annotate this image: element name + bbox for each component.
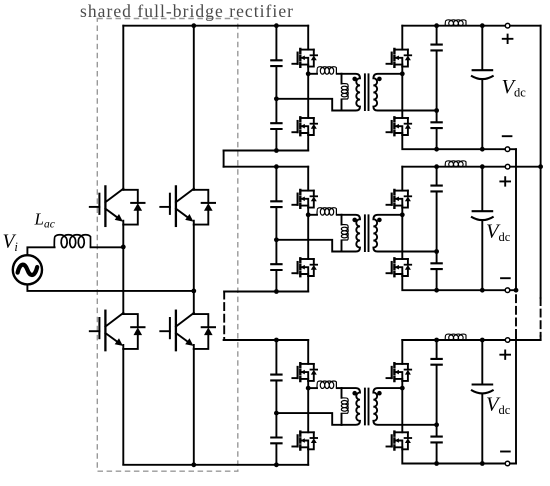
wire module 1 secondary cap leg <box>436 26 438 150</box>
junction module 2 sec cap leg top <box>434 164 439 169</box>
junction module 2 output cap bottom <box>480 288 485 293</box>
wire module 3 Q-low source to bottom rail <box>307 449 309 465</box>
plus sign (module 2) <box>499 176 511 186</box>
junction + bus / module 2 + rail <box>538 164 543 169</box>
wire output + bus (to module 3 + rail) <box>540 336 542 340</box>
junction module 1 top rail / input cap leg <box>274 23 279 28</box>
junction module 3 bottom rail / input cap leg <box>274 462 279 467</box>
junction module 1 sec cap midpoint / transformer return <box>434 108 439 113</box>
transformer T2 core <box>365 215 369 251</box>
capacitor module 3 secondary C-top <box>430 359 442 365</box>
MOSFET Q1H (primary high side) <box>292 49 317 67</box>
wire module 1 output cap leg <box>481 26 483 150</box>
junction module 1 output cap top <box>480 23 485 28</box>
transformer T1 polarity dot (primary) <box>352 77 357 82</box>
wire module 1 output + rail <box>402 25 540 27</box>
wire module 3 secondary midpoint leg <box>401 381 403 432</box>
junction module 2 sec cap leg bottom <box>434 288 439 293</box>
inductor Lr (resonant, module 1) <box>317 67 336 75</box>
junction module 1 input divider midpoint <box>274 96 279 101</box>
wire AC source top lead <box>27 247 54 255</box>
junction module 2 sec cap midpoint / transformer return <box>434 249 439 254</box>
IGBT T3 (bridge left low) <box>90 311 145 351</box>
inductor Lr (resonant, module 3) <box>317 381 336 389</box>
junction module 3 sec cap leg top <box>434 338 439 343</box>
junction module 2 half-bridge midpoint <box>306 212 311 217</box>
wire output + bus (upper, solid) <box>540 26 542 298</box>
junction module 3 half-bridge midpoint <box>306 386 311 391</box>
junction module 2 output cap top <box>480 164 485 169</box>
junction module 1 top rail / bridge right leg <box>191 23 196 28</box>
MOSFET S2L (secondary low side) <box>387 258 412 276</box>
junction module 3 secondary midpoint (transformer tap) <box>400 386 405 391</box>
junction module 1 secondary midpoint (transformer tap) <box>400 71 405 76</box>
wire module 3 half-bridge midpoint leg <box>307 381 309 432</box>
wire module 3 S-low source to output rail <box>402 449 436 463</box>
capacitor module 2 secondary C-bottom <box>430 263 442 269</box>
wire module 1 Q-low source to bottom rail <box>307 135 309 151</box>
wire module 3 S-high drain <box>401 340 403 364</box>
inductor Lr (resonant, module 2) <box>317 208 336 216</box>
inductor T2 Lm (transformer magnetizing) <box>341 225 348 241</box>
wire module 2 S-high drain <box>401 167 403 191</box>
minus sign (module 2) <box>500 277 511 279</box>
wire output - bus (dashed continuation) (dashed continuation) <box>515 295 517 338</box>
wire module 2 secondary cap leg <box>436 167 438 291</box>
minus sign (module 1) <box>502 135 513 137</box>
junction module 2 input divider midpoint <box>274 237 279 242</box>
junction module 1 half-bridge midpoint <box>306 71 311 76</box>
dashed boundary box of shared full-bridge rectifier <box>97 19 238 472</box>
capacitor module 1 secondary C-top <box>430 45 442 51</box>
MOSFET S2H (secondary high side) <box>387 190 412 208</box>
wire module 2 output - rail <box>437 289 516 291</box>
MOSFET S1L (secondary low side) <box>387 117 412 135</box>
wire module 2 bottom rail <box>224 291 308 293</box>
junction - bus / module 2 - rail <box>514 288 519 293</box>
MOSFET Q2H (primary high side) <box>292 190 317 208</box>
wire module 2 primary return wire <box>276 240 341 252</box>
junction module 3 output cap bottom <box>480 461 485 466</box>
wire module 2 half-bridge midpoint leg <box>307 208 309 259</box>
capacitor module 2 input divider C-bottom <box>270 264 282 270</box>
wire module 3 output - rail <box>437 463 516 465</box>
wire module 2 midpoint to resonant inductor <box>308 214 317 216</box>
transformer T1 polarity dot (secondary) <box>377 77 382 82</box>
wire module 1 half-bridge midpoint leg <box>307 67 309 118</box>
wire bridge right leg lower <box>193 349 195 465</box>
wire module 3 secondary cap leg <box>436 340 438 464</box>
wire module 1 bottom rail <box>224 150 309 152</box>
wire module 2 Q-low source to bottom rail <box>307 276 309 292</box>
junction module 1 bottom rail / input cap leg <box>274 148 279 153</box>
wire module 2 resonant inductor to transformer <box>337 214 342 216</box>
inductor T3 Lm (transformer magnetizing) <box>341 398 348 414</box>
junction module 3 sec cap leg bottom <box>434 461 439 466</box>
wire module 1 S-high drain <box>401 26 403 50</box>
inductor Lf (output filter, module 2) <box>445 161 466 167</box>
wire module 2 Q-high drain <box>307 167 309 191</box>
IGBT T1 (bridge left high) <box>90 186 145 226</box>
junction module 3 top rail / input cap leg <box>274 338 279 343</box>
transformer T3 primary winding <box>341 388 343 425</box>
MOSFET Q3L (primary low side) <box>292 432 317 450</box>
inductor Lac (input) <box>54 235 90 248</box>
wire output + bus (dashed continuation) (dashed continuation) <box>540 298 542 336</box>
wire module 3 resonant inductor to transformer <box>337 387 342 389</box>
wire output - bus (lower, solid) <box>515 338 517 463</box>
terminal module 3 - output <box>505 461 510 466</box>
wire module 1 primary return wire <box>276 99 341 111</box>
wire module 3 output + rail <box>402 339 540 341</box>
wire module 2 top rail <box>224 166 309 168</box>
IGBT T2 (bridge right high) <box>160 186 215 226</box>
capacitor module 1 secondary C-bottom <box>430 122 442 128</box>
transformer T1 primary winding <box>341 74 343 111</box>
wire module 3 input capacitor leg <box>275 340 277 465</box>
svg-text:shared full-bridge rectifier: shared full-bridge rectifier <box>80 1 294 21</box>
wire module 2 input capacitor leg <box>275 167 277 292</box>
MOSFET Q3H (primary high side) <box>292 363 317 381</box>
wire module 1 output - rail <box>437 148 516 150</box>
MOSFET S3H (secondary high side) <box>387 363 412 381</box>
transformer T1 secondary winding <box>373 74 436 111</box>
wire bridge left leg middle <box>122 225 124 313</box>
MOSFET Q2L (primary low side) <box>292 258 317 276</box>
plus sign (module 1) <box>502 34 514 44</box>
junction module 3 output cap top <box>480 338 485 343</box>
wire module 2 secondary midpoint leg <box>401 208 403 259</box>
junction module 3 bottom rail / bridge right leg <box>191 462 196 467</box>
AC source Vi <box>13 255 42 284</box>
junction module 2 secondary midpoint (transformer tap) <box>400 212 405 217</box>
wire module 3 midpoint to resonant inductor <box>308 387 317 389</box>
wire series link module1-module2 <box>223 151 225 167</box>
wire bridge right leg middle <box>193 225 195 313</box>
wire module 1 top rail (bridge DC+ bus) <box>123 25 308 27</box>
junction module 2 bottom rail / input cap leg <box>274 289 279 294</box>
wire module 2 S-low source to output rail <box>402 276 436 290</box>
terminal module 1 + output <box>505 23 510 28</box>
wire bridge right leg upper <box>193 26 195 189</box>
wire module 1 S-low source to output rail <box>402 135 436 149</box>
junction module 1 output cap bottom <box>480 147 485 152</box>
transformer T2 primary winding <box>341 215 343 252</box>
inductor Lf (output filter, module 1) <box>445 20 466 26</box>
terminal module 1 - output <box>505 147 510 152</box>
wire bridge left leg lower <box>122 349 124 465</box>
wire module 3 top rail <box>224 339 309 341</box>
terminal module 2 - output <box>505 288 510 293</box>
capacitor module 3 input divider C-top <box>270 375 282 381</box>
wire AC source bottom lead to bridge right midpoint <box>27 284 193 291</box>
junction module 3 sec cap midpoint / transformer return <box>434 422 439 427</box>
wire module 3 Q-high drain <box>307 340 309 364</box>
wire series link module2-module3 (dashed continuation) <box>223 292 225 339</box>
transformer T3 secondary winding <box>373 388 436 425</box>
transformer T3 core <box>365 389 369 425</box>
inductor Lf (output filter, module 3) <box>445 334 466 340</box>
transformer T2 polarity dot (secondary) <box>377 218 382 223</box>
junction module 3 input divider midpoint <box>274 411 279 416</box>
junction bridge left midpoint (AC in) <box>121 245 126 250</box>
wire Lac to bridge left midpoint <box>91 246 124 248</box>
junction module 1 sec cap leg top <box>434 23 439 28</box>
MOSFET S1H (secondary high side) <box>387 49 412 67</box>
capacitor module 1 input divider C-top <box>270 60 282 66</box>
capacitor Co (module 3, polarized) <box>472 383 494 385</box>
minus sign (module 3) <box>500 451 511 453</box>
capacitor Co (module 2, polarized) <box>472 210 494 212</box>
wire module 1 input capacitor leg <box>275 26 277 151</box>
IGBT T4 (bridge right low) <box>160 311 215 351</box>
capacitor Co (module 1, polarized) <box>472 69 494 71</box>
junction bridge right midpoint (AC return) <box>191 289 196 294</box>
wire module 1 resonant inductor to transformer <box>337 73 342 75</box>
wire module 1 midpoint to resonant inductor <box>308 73 317 75</box>
wire module 2 output + rail <box>402 166 540 168</box>
capacitor module 2 secondary C-top <box>430 186 442 192</box>
wire module 3 primary return wire <box>276 413 341 425</box>
capacitor module 1 input divider C-bottom <box>270 123 282 129</box>
wire module 3 bottom rail (bridge DC- bus) <box>123 464 308 466</box>
transformer T3 polarity dot (secondary) <box>377 391 382 396</box>
terminal module 3 + output <box>505 338 510 343</box>
capacitor module 3 input divider C-bottom <box>270 438 282 444</box>
MOSFET S3L (secondary low side) <box>387 432 412 450</box>
wire module 2 output cap leg <box>481 167 483 291</box>
inductor T1 Lm (transformer magnetizing) <box>341 84 348 100</box>
wire module 1 Q-high drain <box>307 26 309 50</box>
transformer T3 polarity dot (primary) <box>352 391 357 396</box>
transformer T2 secondary winding <box>373 215 436 252</box>
wire module 1 secondary midpoint leg <box>401 67 403 118</box>
terminal module 2 + output <box>505 164 510 169</box>
plus sign (module 3) <box>499 350 511 360</box>
junction module 1 sec cap leg bottom <box>434 147 439 152</box>
MOSFET Q1L (primary low side) <box>292 117 317 135</box>
wire output - bus (upper, solid) <box>515 149 517 290</box>
junction module 2 top rail / input cap leg <box>274 164 279 169</box>
capacitor module 3 secondary C-bottom <box>430 437 442 443</box>
transformer T2 polarity dot (primary) <box>352 218 357 223</box>
transformer T1 core <box>365 74 369 110</box>
capacitor module 2 input divider C-top <box>270 201 282 207</box>
wire bridge left leg upper <box>122 26 124 189</box>
wire module 3 output cap leg <box>481 340 483 464</box>
